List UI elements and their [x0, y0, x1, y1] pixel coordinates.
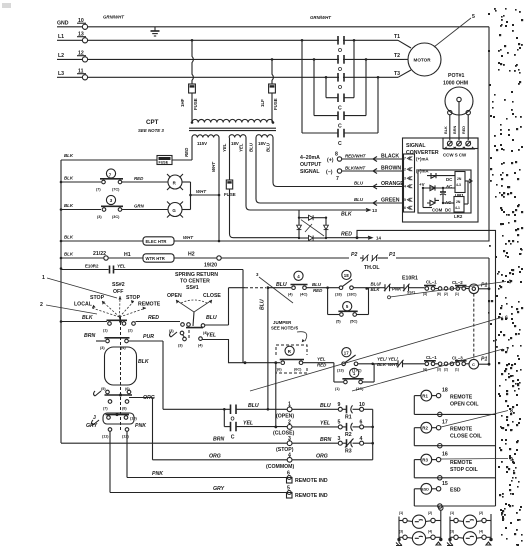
- pilot lamp G: [167, 202, 191, 218]
- scan halftone noise (decorative): [488, 8, 523, 546]
- svg-text:GND: GND: [57, 21, 69, 27]
- rectifier bridge BR1: [297, 215, 329, 240]
- svg-text:BLK: BLK: [444, 126, 448, 134]
- interlock dashed O-C: [473, 294, 475, 360]
- svg-text:BLU: BLU: [276, 282, 287, 288]
- svg-text:R3: R3: [345, 449, 352, 455]
- svg-text:GRY: GRY: [86, 423, 98, 429]
- svg-text:YEL: YEL: [222, 143, 227, 152]
- svg-text:(1): (1): [399, 511, 403, 515]
- svg-text:7: 7: [109, 173, 112, 178]
- signal converter input terminal strip: [404, 154, 430, 212]
- svg-text:ORANGE: ORANGE: [381, 181, 404, 187]
- heater ELEC HTR row: [61, 235, 489, 246]
- svg-text:BLU: BLU: [354, 197, 364, 202]
- svg-text:+V: +V: [419, 182, 425, 187]
- svg-text:4-3: 4-3: [456, 183, 461, 187]
- svg-text:E10R1: E10R1: [402, 276, 418, 282]
- panel boundary right: [488, 27, 490, 242]
- svg-text:P1: P1: [481, 283, 487, 289]
- svg-text:(+)mA: (+)mA: [416, 157, 429, 162]
- svg-text:ORG: ORG: [316, 454, 328, 460]
- callout 3: [256, 272, 293, 303]
- svg-text:P1: P1: [389, 252, 395, 258]
- svg-text:3: 3: [110, 198, 113, 203]
- svg-text:BLU: BLU: [312, 282, 322, 287]
- signal converter U-SC box: [403, 138, 479, 222]
- node T3: [394, 70, 411, 77]
- svg-text:(6C): (6C): [294, 368, 302, 372]
- svg-text:5: 5: [346, 304, 349, 309]
- wire BLU green input: [260, 197, 404, 206]
- svg-text:RED: RED: [134, 176, 144, 181]
- svg-text:BLACK: BLACK: [381, 154, 399, 160]
- svg-text:P2: P2: [351, 252, 357, 258]
- heater WTR HTR row H1 H2: [61, 251, 349, 269]
- svg-text:CCW S CW: CCW S CW: [443, 153, 467, 158]
- enclosure local station: [61, 442, 243, 444]
- svg-text:(STOP): (STOP): [276, 447, 294, 453]
- wire BRN pot wiper: [453, 102, 459, 140]
- svg-text:18: 18: [442, 388, 448, 394]
- wire BLK 13: [250, 208, 377, 218]
- svg-text:(6): (6): [277, 368, 282, 372]
- svg-text:SEE NOTE 3: SEE NOTE 3: [138, 128, 164, 133]
- svg-text:8: 8: [335, 152, 338, 158]
- svg-text:17: 17: [442, 420, 448, 426]
- svg-text:CPT: CPT: [146, 119, 159, 126]
- svg-text:BLU: BLU: [248, 403, 259, 409]
- terminal 2 CLOSE: [273, 420, 341, 437]
- svg-text:RED/WHT: RED/WHT: [345, 154, 366, 159]
- svg-text:P1: P1: [481, 357, 487, 363]
- coil R2 remote close: [414, 420, 495, 448]
- svg-text:WHT: WHT: [211, 162, 216, 172]
- coil ESD: [414, 481, 495, 508]
- svg-text:(OPEN): (OPEN): [276, 414, 294, 420]
- contact 5 bypass: [328, 288, 369, 324]
- svg-text:J: J: [93, 415, 96, 421]
- svg-text:MOTOR: MOTOR: [414, 57, 432, 62]
- svg-text:(3C): (3C): [112, 215, 120, 219]
- svg-text:(3): (3): [97, 215, 102, 219]
- svg-text:GRY: GRY: [213, 486, 225, 492]
- contactor C poles: [302, 40, 378, 147]
- svg-text:CL–3: CL–3: [452, 356, 463, 361]
- svg-text:YEL/: YEL/: [377, 357, 388, 362]
- svg-text:(4): (4): [479, 530, 483, 534]
- node top of terminal block: [439, 506, 443, 517]
- svg-text:T1: T1: [394, 34, 400, 40]
- svg-text:GRN: GRN: [134, 204, 145, 209]
- svg-text:WHT: WHT: [183, 235, 193, 240]
- svg-text:6: 6: [404, 206, 406, 210]
- terminal 5 remote ind: [287, 486, 328, 500]
- wire open row from PUR: [163, 408, 230, 411]
- svg-text:BLK: BLK: [64, 153, 74, 158]
- transformer CPT label: [138, 119, 164, 133]
- svg-text:SS#1: SS#1: [186, 285, 199, 291]
- svg-text:(5): (5): [101, 387, 106, 391]
- switch J body: [92, 413, 138, 425]
- svg-text:(CLOSE): (CLOSE): [273, 431, 295, 437]
- svg-text:E10R2: E10R2: [85, 264, 99, 269]
- svg-text:L2: L2: [58, 53, 64, 59]
- svg-text:BLK: BLK: [64, 252, 74, 257]
- wire L1 phase: [88, 39, 398, 42]
- thermal overload TH.OL P2 P1: [351, 252, 490, 366]
- wire RED from 115V: [184, 138, 192, 161]
- wire BLU orange input: [277, 181, 404, 190]
- svg-text:YEL: YEL: [317, 357, 326, 362]
- svg-text:UR1: UR1: [455, 193, 464, 198]
- svg-text:OPEN COIL: OPEN COIL: [450, 402, 479, 408]
- svg-text:BLU: BLU: [320, 403, 331, 409]
- wire R row to close row: [274, 361, 277, 428]
- terminal 1 OPEN: [276, 402, 341, 420]
- svg-text:3: 3: [404, 177, 406, 181]
- svg-text:BLK: BLK: [64, 203, 74, 208]
- callout 9: [441, 457, 513, 463]
- node T2: [394, 53, 408, 59]
- wire YEL pair from 18V a: [222, 138, 299, 238]
- svg-text:C: C: [231, 435, 235, 441]
- terminal 4 COMMON: [153, 453, 373, 471]
- switch SS#2 body: [105, 317, 150, 430]
- svg-text:(1): (1): [455, 368, 459, 372]
- svg-text:CLOSE: CLOSE: [203, 293, 221, 299]
- svg-text:YEL: YEL: [320, 421, 330, 427]
- svg-text:4–20mA: 4–20mA: [300, 155, 320, 161]
- callout 6: [250, 316, 508, 392]
- svg-text:RED: RED: [462, 126, 466, 134]
- svg-text:OFF: OFF: [113, 289, 123, 295]
- contact SS#2 row 7-8: [103, 395, 155, 460]
- svg-text:(13): (13): [337, 369, 344, 373]
- svg-text:(4): (4): [288, 293, 293, 297]
- svg-text:C: C: [338, 124, 342, 130]
- svg-text:RED: RED: [148, 315, 159, 321]
- svg-text:17: 17: [344, 350, 349, 355]
- contact close coil row NC: [376, 357, 425, 368]
- transformer CPT secondary 18V b: [256, 135, 273, 146]
- svg-text:OUTPUT: OUTPUT: [300, 162, 322, 168]
- svg-text:(10): (10): [130, 417, 137, 421]
- svg-text:(2): (2): [128, 329, 133, 333]
- selector SS#1 arrows: [176, 300, 212, 326]
- svg-text:(−): (−): [326, 170, 333, 176]
- fuse 1LF: [260, 59, 278, 122]
- svg-text:SPRING RETURN: SPRING RETURN: [175, 272, 218, 278]
- svg-text:WTR HTR: WTR HTR: [146, 256, 165, 261]
- coil R3 remote stop: [414, 452, 495, 480]
- svg-text:BLK/WHT: BLK/WHT: [345, 166, 366, 171]
- svg-text:4: 4: [404, 185, 406, 189]
- svg-text:LOCAL: LOCAL: [74, 302, 93, 308]
- svg-text:(2): (2): [444, 368, 448, 372]
- svg-text:CL–1: CL–1: [426, 280, 437, 285]
- svg-text:COM: COM: [432, 208, 443, 213]
- svg-text:G: G: [172, 208, 176, 213]
- ground symbol: [151, 27, 160, 36]
- contact R3 NC: [338, 436, 374, 455]
- transformer CPT secondary 18V a: [229, 135, 246, 146]
- svg-text:R2: R2: [422, 426, 428, 431]
- callout 5: [434, 14, 475, 47]
- wire GRY drop: [110, 431, 287, 492]
- svg-text:1: 1: [42, 275, 45, 281]
- svg-text:BLU: BLU: [266, 142, 271, 152]
- svg-text:R1: R1: [422, 394, 428, 399]
- svg-text:CL–2: CL–2: [452, 280, 463, 285]
- svg-text:4: 4: [297, 274, 300, 279]
- svg-text:18: 18: [344, 273, 349, 278]
- svg-text:BLU: BLU: [206, 315, 217, 321]
- callout 2: [40, 302, 97, 314]
- selector SS#2 labels: [74, 282, 161, 308]
- svg-text:SEE NOTE#5: SEE NOTE#5: [271, 326, 299, 331]
- pilot lamp R: [167, 174, 191, 190]
- callout 7: [352, 348, 509, 392]
- wire BLU bus: [260, 288, 268, 410]
- svg-text:LR2: LR2: [454, 214, 463, 219]
- contact R jumper dashed box: [243, 345, 334, 373]
- signal converter pot terminal strip: [443, 138, 478, 158]
- svg-text:PNK: PNK: [135, 423, 147, 429]
- svg-text:4: 4: [508, 280, 511, 286]
- contact SS#1 deck2: [170, 330, 247, 364]
- svg-text:DC: DC: [446, 177, 453, 182]
- svg-text:BLK: BLK: [377, 362, 387, 367]
- svg-text:BROWN: BROWN: [381, 166, 401, 172]
- svg-text:2: 2: [404, 168, 406, 172]
- svg-text:(2): (2): [479, 511, 483, 515]
- contact SS#2 row 5-6: [94, 387, 133, 397]
- svg-text:(2): (2): [428, 511, 432, 515]
- svg-text:BLU: BLU: [260, 299, 266, 310]
- svg-text:(3): (3): [437, 368, 441, 372]
- contact 7 red lamp row: [61, 169, 168, 192]
- wire PNK drop: [127, 431, 287, 477]
- svg-text:(7): (7): [96, 188, 101, 192]
- svg-text:(18): (18): [335, 293, 342, 297]
- potentiometer POT#1 1000 OHM: [443, 73, 473, 115]
- svg-text:POT#1: POT#1: [448, 73, 465, 79]
- coil R1 remote open: [414, 388, 495, 417]
- signal converter inner electronics: [418, 170, 472, 219]
- coil C close contactor: [469, 357, 489, 370]
- svg-text:(6): (6): [437, 292, 441, 296]
- svg-text:GREEN: GREEN: [381, 198, 400, 204]
- svg-text:(1): (1): [455, 292, 459, 296]
- svg-text:STOP COIL: STOP COIL: [450, 467, 479, 473]
- svg-text:L1: L1: [58, 34, 64, 40]
- svg-text:(6): (6): [125, 387, 130, 391]
- svg-text:O: O: [338, 48, 342, 54]
- svg-text:R1: R1: [345, 415, 352, 421]
- jumper note: [271, 320, 307, 342]
- svg-text:(3): (3): [450, 530, 454, 534]
- svg-text:5: 5: [472, 14, 475, 20]
- svg-text:REMOTE: REMOTE: [138, 302, 161, 308]
- svg-text:R: R: [173, 180, 177, 185]
- svg-text:7: 7: [506, 348, 509, 354]
- svg-text:YEL: YEL: [206, 333, 216, 339]
- contact R2: [338, 420, 374, 439]
- svg-text:1000 OHM: 1000 OHM: [443, 81, 468, 87]
- node L3 terminal 11: [57, 69, 88, 80]
- wire RED 14: [326, 230, 496, 506]
- terminal block right group: [447, 511, 493, 546]
- left bus BLK: [60, 160, 63, 443]
- svg-text:CONVERTER: CONVERTER: [406, 150, 439, 156]
- motor M: [408, 43, 441, 76]
- svg-text:(3): (3): [178, 344, 183, 348]
- svg-text:15: 15: [442, 481, 448, 487]
- svg-text:FUSE: FUSE: [193, 98, 198, 110]
- svg-text:(18C): (18C): [347, 293, 357, 297]
- svg-text:1HF: 1HF: [180, 98, 185, 107]
- svg-text:T2: T2: [394, 53, 400, 59]
- transformer CPT primary winding: [189, 119, 276, 130]
- svg-text:BLU: BLU: [249, 142, 254, 152]
- node GND terminal 10: [57, 18, 88, 29]
- node L1 terminal 13: [57, 32, 88, 43]
- svg-text:8: 8: [510, 409, 513, 415]
- selector SS#1 labels: [167, 272, 221, 299]
- svg-text:(2): (2): [444, 292, 448, 296]
- svg-text:(3): (3): [169, 329, 174, 333]
- svg-text:(1): (1): [450, 511, 454, 515]
- svg-text:(COMMOM): (COMMOM): [266, 464, 295, 470]
- svg-text:7: 7: [336, 176, 339, 182]
- fuse 1HF: [180, 40, 198, 122]
- wire L3 phase: [88, 76, 398, 79]
- svg-text:FUSE: FUSE: [159, 161, 169, 165]
- svg-text:(5): (5): [336, 320, 341, 324]
- wire BLU pair from 18V b: [249, 138, 278, 204]
- wire 4-20mA plus input: [300, 152, 404, 176]
- svg-text:H2: H2: [188, 252, 195, 258]
- svg-text:C: C: [472, 362, 475, 367]
- switch 17: [317, 348, 376, 373]
- contact R1: [338, 402, 372, 460]
- contact J row 11-12: [86, 423, 147, 439]
- svg-text:7: 7: [404, 157, 406, 161]
- wire RED pot cw: [462, 115, 468, 140]
- svg-text:14: 14: [376, 236, 381, 241]
- svg-text:TH.OL: TH.OL: [364, 265, 380, 271]
- wire 4-20mA minus input: [326, 166, 404, 183]
- svg-text:BLK: BLK: [64, 235, 74, 240]
- contact E10R1 row NC contacts: [369, 276, 425, 295]
- contact 3 green lamp row: [61, 195, 168, 219]
- svg-text:(7C): (7C): [112, 188, 120, 192]
- svg-text:3: 3: [256, 272, 259, 277]
- svg-text:9: 9: [510, 457, 513, 463]
- svg-text:DC: DC: [445, 208, 452, 213]
- svg-text:ESD: ESD: [450, 488, 461, 494]
- terminal E10R2 YEL row: [61, 264, 243, 363]
- svg-text:FUSE: FUSE: [273, 98, 278, 110]
- svg-text:BLU/: BLU/: [371, 282, 382, 287]
- svg-text:RED: RED: [341, 232, 352, 238]
- svg-text:H1: H1: [124, 252, 131, 258]
- node L2 terminal 12: [57, 51, 88, 63]
- selector SS#2 arrows: [92, 296, 146, 317]
- svg-text:5: 5: [404, 198, 406, 202]
- svg-text:WHT: WHT: [196, 189, 206, 194]
- svg-text:PNK: PNK: [152, 471, 164, 477]
- svg-text:16: 16: [442, 452, 448, 458]
- wire lamp common WHT: [189, 182, 220, 210]
- svg-text:(1): (1): [335, 387, 340, 391]
- svg-text:6: 6: [505, 316, 508, 322]
- svg-text:ORG: ORG: [209, 454, 221, 460]
- svg-text:O: O: [338, 85, 342, 91]
- contact SS#2 row 3-4: [84, 333, 163, 350]
- svg-text:(4C): (4C): [300, 293, 308, 297]
- switch 18: [335, 270, 369, 296]
- svg-text:ESD: ESD: [422, 488, 430, 492]
- terminal 3 STOP: [243, 436, 341, 453]
- selector common row BLK RED BLU: [60, 288, 229, 335]
- terminal 6 remote ind: [287, 471, 328, 485]
- svg-text:R: R: [288, 349, 292, 354]
- svg-text:ELEC HTR: ELEC HTR: [146, 239, 167, 244]
- wire BRN STOP row: [213, 437, 224, 443]
- svg-text:(12): (12): [122, 435, 129, 439]
- svg-text:BRN: BRN: [213, 437, 224, 443]
- svg-text:PUR: PUR: [143, 334, 154, 340]
- svg-text:OPEN: OPEN: [167, 293, 182, 299]
- terminal block left group: [396, 511, 442, 546]
- svg-text:TO CENTER: TO CENTER: [180, 279, 210, 285]
- svg-text:BRN: BRN: [320, 437, 331, 443]
- svg-text:BLK: BLK: [341, 212, 353, 218]
- svg-text:REMOTE IND: REMOTE IND: [295, 478, 328, 484]
- svg-text:REMOTE: REMOTE: [450, 460, 473, 466]
- svg-text:REMOTE: REMOTE: [450, 395, 473, 401]
- svg-text:SIGNAL: SIGNAL: [300, 169, 320, 175]
- contactor O poles L1 L2 L3: [338, 36, 344, 91]
- svg-text:SS#2: SS#2: [112, 282, 125, 288]
- svg-text:L3: L3: [58, 71, 64, 77]
- callout 4: [388, 280, 512, 299]
- svg-text:RED: RED: [184, 147, 189, 157]
- svg-text:YEL: YEL: [117, 264, 126, 269]
- svg-text:115V: 115V: [197, 141, 207, 146]
- svg-text:BLK: BLK: [138, 359, 150, 365]
- svg-text:(3): (3): [100, 346, 105, 350]
- wire WHT from 115V: [211, 138, 219, 242]
- svg-text:2: 2: [40, 302, 43, 308]
- svg-text:BLK: BLK: [82, 315, 94, 321]
- limit contact O: [231, 403, 288, 423]
- svg-text:BRN: BRN: [84, 333, 95, 339]
- svg-text:RED: RED: [313, 288, 323, 293]
- svg-text:RED: RED: [317, 363, 327, 368]
- svg-text:REMOTE: REMOTE: [450, 427, 473, 433]
- node T1: [394, 34, 411, 48]
- svg-text:13: 13: [372, 208, 377, 213]
- svg-text:(8): (8): [122, 407, 127, 411]
- wire L2 phase: [88, 58, 404, 61]
- svg-text:WHT: WHT: [388, 362, 398, 367]
- svg-text:R3: R3: [422, 458, 428, 463]
- svg-text:(+): (+): [327, 158, 334, 164]
- svg-text:GRN/WHT: GRN/WHT: [103, 15, 124, 20]
